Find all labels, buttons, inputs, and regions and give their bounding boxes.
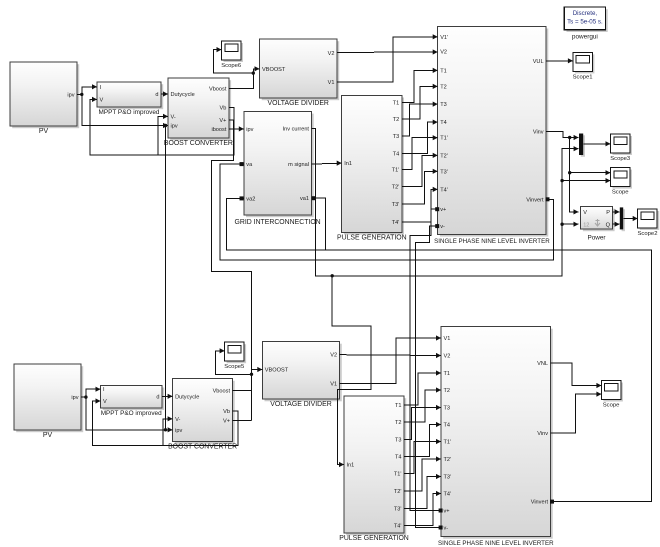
svg-text:Scope3: Scope3 — [610, 156, 631, 162]
svg-text:T2': T2' — [444, 457, 452, 463]
wire BOOST1.V+ to v+ net — [212, 120, 252, 420]
svg-text:VUL: VUL — [533, 59, 544, 65]
junction GRID.va — [240, 162, 244, 166]
svg-text:T2': T2' — [440, 153, 448, 159]
svg-text:T4': T4' — [394, 524, 402, 530]
subsystem PV (bottom) — [14, 364, 83, 439]
svg-text:V+: V+ — [219, 118, 226, 124]
scope Scope6 — [221, 41, 243, 69]
svg-text:V1: V1 — [330, 381, 337, 387]
svg-text:V+: V+ — [223, 418, 230, 424]
powergui block — [564, 7, 607, 41]
svg-text:ipv: ipv — [246, 127, 253, 133]
wire PULSE2.T1' to INV2.T1' — [404, 439, 441, 474]
subsystem MPPT P&amp;O improved (bottom) — [101, 385, 165, 417]
junction to Scope mid input 1 — [568, 171, 571, 174]
wire PULSE2.T2' to INV2.T2' — [404, 456, 441, 491]
svg-text:T3: T3 — [444, 406, 451, 412]
junction INV1.v+ — [435, 207, 439, 211]
wire junction down to Power.V — [570, 138, 579, 215]
wire INV1.Vinvert to GRID.va — [220, 164, 553, 260]
wire MPPT2.d to BOOST2.Dutycycle — [162, 394, 173, 399]
scope Scope3 — [610, 134, 632, 162]
svg-text:T1: T1 — [440, 68, 447, 74]
svg-text:T1': T1' — [392, 168, 400, 174]
svg-text:Scope1: Scope1 — [573, 74, 593, 80]
svg-text:Scope: Scope — [603, 403, 620, 409]
svg-text:SINGLE PHASE NINE LEVEL INVERT: SINGLE PHASE NINE LEVEL INVERTER — [438, 540, 554, 547]
svg-text:T4: T4 — [395, 455, 402, 461]
wire PULSE1.T4 to INV1.T4 — [402, 120, 438, 154]
svg-text:VBOOST: VBOOST — [265, 368, 289, 374]
subsystem VOLTAGE DIVIDER (top) — [260, 39, 340, 107]
svg-text:v+: v+ — [444, 509, 450, 515]
junction Vboost2 tap — [250, 373, 253, 376]
wire PULSE2.T3' to INV2.T3' — [404, 474, 441, 509]
wire Power.Q to Mux2 — [612, 222, 619, 227]
svg-text:T1': T1' — [394, 472, 402, 478]
svg-text:In1: In1 — [344, 161, 352, 167]
svg-text:V1: V1 — [444, 336, 451, 342]
svg-text:T4: T4 — [440, 120, 447, 126]
subsystem SINGLE PHASE NINE LEVEL INVERTER (bottom) — [438, 327, 554, 547]
svg-text:Vboost: Vboost — [209, 86, 227, 92]
svg-text:Scope: Scope — [612, 190, 629, 196]
svg-text:VOLTAGE DIVIDER: VOLTAGE DIVIDER — [270, 401, 331, 408]
svg-text:m signal: m signal — [288, 162, 309, 168]
svg-text:V-: V- — [175, 417, 180, 423]
wire BOOST1.Vb loop to MPPT1.V — [90, 97, 234, 155]
svg-text:iboost: iboost — [211, 127, 226, 133]
junction bus to Scope mid input 2 — [560, 179, 563, 182]
svg-text:PULSE GENERATION: PULSE GENERATION — [339, 535, 409, 542]
wire PULSE2.T3 to INV2.T3 — [404, 405, 441, 440]
junction bus to Power.I — [560, 223, 563, 226]
wire BOOST2.Vb loop to MPPT2.V — [92, 398, 238, 445]
svg-text:ipv: ipv — [67, 92, 74, 98]
svg-text:T3: T3 — [395, 438, 402, 444]
junction INV1.v- — [435, 224, 439, 228]
svg-text:T2': T2' — [394, 489, 402, 495]
svg-text:va: va — [246, 162, 253, 168]
wire BOOST1.Vboost to VD1.VBOOST — [229, 66, 260, 88]
wire PULSE1.T1' to INV1.T1' — [402, 135, 438, 169]
svg-text:PV: PV — [39, 128, 49, 135]
wire junction to Scope mid input 2 — [562, 178, 610, 183]
svg-text:v-: v- — [444, 526, 449, 532]
svg-text:P: P — [606, 210, 610, 216]
svg-text:GRID INTERCONNECTION: GRID INTERCONNECTION — [235, 219, 321, 226]
svg-text:T1: T1 — [393, 100, 400, 106]
wire GRID.va1 down to bus — [312, 198, 326, 250]
svg-text:v-: v- — [440, 224, 445, 230]
svg-text:MPPT P&O improved: MPPT P&O improved — [101, 410, 162, 417]
subsystem VOLTAGE DIVIDER (bottom) — [262, 342, 342, 409]
svg-text:T2: T2 — [440, 84, 447, 90]
svg-text:Dutycycle: Dutycycle — [175, 394, 199, 400]
svg-text:T3': T3' — [440, 169, 448, 175]
wire PULSE1.T2 to INV1.T2 — [402, 84, 438, 119]
svg-text:Vb: Vb — [220, 106, 227, 112]
wire BOOST2.Vboost to VD2.VBOOST — [233, 367, 263, 391]
svg-text:T4': T4' — [440, 187, 448, 193]
wire MPPT1.d to BOOST1.Dutycycle — [161, 91, 168, 96]
svg-text:powergui: powergui — [572, 34, 598, 41]
svg-text:ipv: ipv — [71, 395, 78, 401]
svg-text:V2: V2 — [328, 51, 335, 57]
svg-text:Q: Q — [606, 222, 611, 228]
subsystem GRID INTERCONNECTION — [235, 111, 321, 226]
wire INV1.Vinv to Mux1 input 1 — [546, 131, 579, 140]
svg-text:V2: V2 — [330, 353, 337, 359]
svg-text:MPPT P&O improved: MPPT P&O improved — [99, 109, 160, 116]
measurement block Power — [581, 206, 615, 241]
wire PULSE1.T3' to INV1.T3' — [402, 169, 438, 204]
wire PV2.ipv to MPPT2.I — [81, 387, 101, 398]
svg-text:V: V — [583, 210, 587, 216]
junction Vboost tap — [252, 71, 255, 74]
scope Scope2 — [638, 209, 660, 237]
wire Power.P to Mux2 — [612, 209, 619, 214]
wire VD2.V1 to INV2.V1 — [340, 335, 441, 383]
scope Scope7 — [573, 52, 595, 80]
svg-text:V2: V2 — [440, 50, 447, 56]
wire VD2.V2 to INV2.V2 — [340, 353, 441, 358]
wire Mux2 to Scope2 — [623, 216, 637, 221]
wire INV2.Vinvert to GRID.va2 — [227, 198, 652, 501]
svg-text:T4': T4' — [444, 492, 452, 498]
junction bottom of x165 net — [164, 428, 167, 431]
svg-text:BOOST CONVERTER: BOOST CONVERTER — [168, 444, 237, 451]
mux Mux1 — [579, 134, 585, 157]
wire v+ chain top to bottom — [410, 209, 441, 510]
svg-text:VNL: VNL — [537, 361, 548, 367]
svg-text:v+: v+ — [440, 207, 446, 213]
svg-text:Vinv: Vinv — [533, 129, 544, 135]
svg-text:VOLTAGE DIVIDER: VOLTAGE DIVIDER — [268, 100, 329, 107]
wire PULSE2.T4' to INV2.T4' — [404, 491, 441, 526]
wire junction to BOOST1.ipv — [82, 94, 168, 128]
subsystem MPPT P&amp;O improved (top) — [97, 82, 163, 116]
wire PULSE1.T3 to INV1.T3 — [402, 102, 438, 137]
svg-text:T3': T3' — [392, 202, 400, 208]
wire INV1.VUL to Scope7 — [546, 58, 573, 63]
svg-text:T1: T1 — [395, 403, 402, 409]
svg-text:Ts = 5e-05 s.: Ts = 5e-05 s. — [567, 18, 603, 25]
svg-text:Vb: Vb — [223, 409, 230, 415]
junction PV2 ipv — [84, 395, 87, 398]
subsystem PV (top) — [10, 62, 79, 135]
svg-text:T4: T4 — [444, 423, 451, 429]
svg-text:V: V — [100, 97, 104, 103]
svg-text:T2': T2' — [392, 185, 400, 191]
svg-text:T3: T3 — [393, 134, 400, 140]
junction inv current bus to In1 branch — [331, 274, 334, 277]
wire BOOST2.V+ up to chain — [233, 419, 252, 421]
subsystem SINGLE PHASE NINE LEVEL INVERTER (top) — [434, 26, 550, 245]
wire long vertical net x165 — [165, 126, 167, 430]
junction INV2.Vinvert — [550, 500, 554, 504]
svg-text:V-: V- — [171, 114, 176, 120]
svg-text:Inv current: Inv current — [283, 127, 310, 133]
wire GRID.m signal to PULSE1.In1 — [312, 161, 342, 166]
wire VD1.V1 to INV1.V1-prime — [337, 34, 438, 82]
svg-text:12: 12 — [583, 222, 589, 228]
mux Mux2 — [620, 207, 625, 231]
junction on Mux1 input wire — [568, 136, 571, 139]
svg-text:va2: va2 — [246, 196, 255, 202]
subsystem PULSE GENERATION (top) — [337, 95, 407, 241]
wire PULSE1.T2' to INV1.T2' — [402, 153, 438, 187]
subsystem PULSE GENERATION (bottom) — [339, 396, 409, 542]
wire VD1.V2 to INV1.V2 — [337, 49, 438, 54]
junction GRID.va2 — [240, 196, 244, 200]
svg-text:T2: T2 — [393, 117, 400, 123]
scope Scope (bottom right) — [601, 381, 623, 409]
wire PULSE2.T4 to INV2.T4 — [404, 422, 441, 457]
svg-text:Discrete,: Discrete, — [573, 10, 598, 17]
svg-text:ipv: ipv — [171, 124, 178, 130]
svg-text:T1: T1 — [444, 371, 451, 377]
wire Vboost tap to Scope6 — [214, 47, 254, 73]
svg-text:PV: PV — [43, 432, 53, 439]
svg-text:va1: va1 — [300, 196, 309, 202]
svg-text:BOOST CONVERTER: BOOST CONVERTER — [164, 140, 233, 147]
wire BOOST1.V- stub — [158, 114, 168, 155]
wire PULSE1.T4' to INV1.T4' — [402, 187, 438, 222]
svg-text:Scope6: Scope6 — [221, 63, 242, 69]
svg-text:V: V — [103, 399, 107, 405]
svg-text:Vinv: Vinv — [537, 431, 548, 437]
svg-text:T1': T1' — [440, 136, 448, 142]
wire BOOST2.V- stub — [163, 416, 173, 445]
subsystem BOOST CONVERTER (top) — [164, 78, 233, 147]
svg-text:V1: V1 — [328, 80, 335, 86]
wire junction to Scope mid input 1 — [570, 170, 611, 175]
junction PV1 ipv — [80, 93, 83, 96]
svg-text:T2: T2 — [395, 420, 402, 426]
svg-text:T1': T1' — [444, 440, 452, 446]
svg-text:Power: Power — [587, 235, 606, 242]
svg-text:d: d — [156, 394, 159, 400]
wire branch to PULSE2.In1 — [332, 276, 371, 467]
wire INV2.Vinv to Scope bottom input 2 — [551, 392, 602, 434]
wire PULSE2.T2 to INV2.T2 — [404, 387, 441, 422]
svg-text:VBOOST: VBOOST — [262, 67, 286, 73]
wire BOOST1.iboost to GRID.ipv — [229, 126, 244, 131]
svg-text:V1': V1' — [440, 35, 448, 41]
svg-text:T4: T4 — [393, 152, 400, 158]
svg-text:Vinvert: Vinvert — [526, 197, 544, 203]
svg-text:Dutycycle: Dutycycle — [171, 92, 195, 98]
wire Vboost2 tap to Scope5 — [216, 348, 252, 374]
scope Scope5 — [224, 342, 246, 370]
scope Scope (mid right) — [611, 168, 633, 196]
svg-text:V2: V2 — [444, 354, 451, 360]
svg-text:T3: T3 — [440, 102, 447, 108]
wire GRID.Inv current down to bus and Mux1 input 2 — [312, 129, 579, 276]
junction INV2.v+ — [439, 509, 443, 513]
wire junction to BOOST2.ipv — [86, 397, 173, 432]
svg-text:T2: T2 — [444, 388, 451, 394]
junction INV1.Vinvert — [546, 197, 550, 201]
subsystem BOOST CONVERTER (bottom) — [168, 379, 237, 451]
junction at GRID.va1 — [312, 196, 316, 200]
svg-text:T3': T3' — [444, 475, 452, 481]
wire PV1.ipv to junction and MPPT1.I — [77, 84, 97, 94]
svg-text:In1: In1 — [347, 463, 355, 469]
svg-text:T4': T4' — [392, 220, 400, 226]
svg-text:SINGLE PHASE NINE LEVEL INVERT: SINGLE PHASE NINE LEVEL INVERTER — [434, 238, 550, 245]
wire PULSE2.T1 to INV2.T1 — [404, 370, 441, 405]
wire v- chain top to bottom — [416, 226, 442, 527]
wire PULSE1.T1 to INV1.T1 — [402, 68, 438, 103]
svg-text:Vboost: Vboost — [213, 388, 231, 394]
svg-text:PULSE GENERATION: PULSE GENERATION — [337, 234, 407, 241]
svg-text:Vinvert: Vinvert — [531, 500, 549, 506]
junction INV2.v- — [439, 526, 443, 530]
svg-text:d: d — [155, 92, 158, 98]
wire junction to Power.I — [562, 222, 578, 227]
junction top of x165 net — [164, 124, 167, 127]
wire Mux1 to Scope3 — [583, 141, 610, 146]
svg-text:Scope2: Scope2 — [638, 231, 658, 237]
wire INV2.VNL to Scope bottom input 1 — [551, 363, 602, 388]
svg-text:T3': T3' — [394, 507, 402, 513]
svg-text:ipv: ipv — [175, 428, 182, 434]
svg-text:Scope5: Scope5 — [224, 364, 245, 370]
